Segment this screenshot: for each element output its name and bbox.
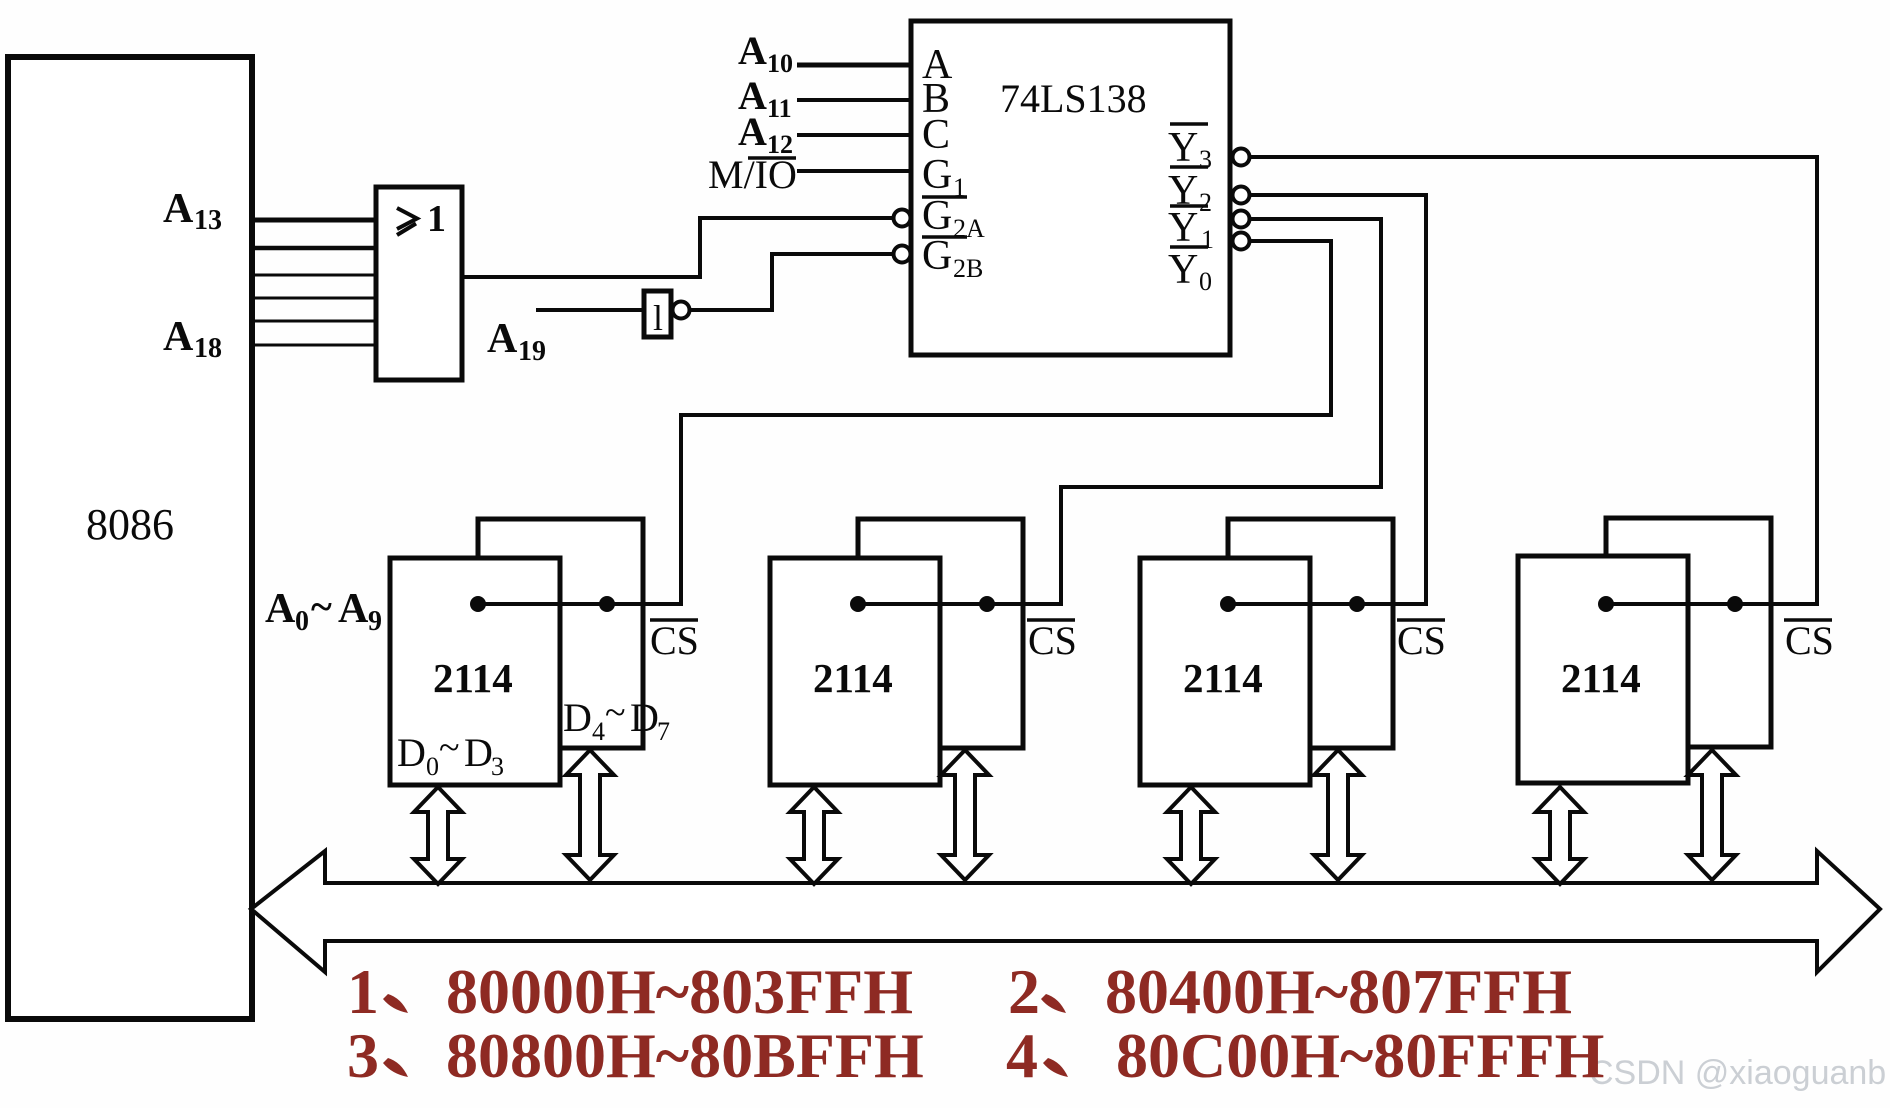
- svg-text:8086: 8086: [86, 500, 174, 549]
- pin label Y3 with overbar: [1168, 124, 1212, 174]
- svg-text:3: 3: [347, 1020, 379, 1091]
- label CS pair 2: [1027, 618, 1075, 622]
- wire M/IO to pin G1: [797, 169, 911, 173]
- svg-text:D: D: [397, 730, 426, 775]
- wire A10 to pin A: [797, 63, 911, 68]
- input bubble G2A: [894, 210, 911, 227]
- CPU 8086 box: [8, 57, 252, 1019]
- svg-text:80C00H~80FFFH: 80C00H~80FFFH: [1116, 1020, 1604, 1091]
- svg-text:1: 1: [1201, 225, 1214, 254]
- input bubble G2B: [894, 246, 911, 263]
- svg-text:9: 9: [368, 606, 382, 637]
- svg-text:2: 2: [1008, 956, 1040, 1027]
- wire Y2 to CS of pair 3: [1250, 195, 1426, 606]
- label A18: [163, 314, 222, 364]
- junction dots pair 2: [850, 596, 866, 612]
- svg-text:Y: Y: [1168, 205, 1198, 251]
- small data arrows (double headed vertical): [414, 750, 1736, 884]
- pin label Y2 with overbar: [1168, 167, 1212, 217]
- junction dots pair 3: [1220, 596, 1236, 612]
- svg-text:CSDN @xiaoguanb: CSDN @xiaoguanb: [1589, 1054, 1886, 1092]
- label CS pair 3: [1397, 618, 1445, 622]
- memory pair 2: 2114 back chip: [770, 519, 1077, 785]
- svg-text:~: ~: [605, 692, 626, 734]
- wire CS net pair 4: [1606, 602, 1819, 606]
- svg-text:A: A: [738, 109, 767, 154]
- pin label Y1 with overbar: [1168, 205, 1214, 254]
- junction dots pair 4: [1598, 596, 1614, 612]
- svg-text:D: D: [464, 730, 493, 775]
- wire A12 to pin C: [797, 133, 911, 137]
- data arrow chip4 back: [1688, 750, 1736, 880]
- svg-text:3: 3: [1199, 145, 1212, 174]
- svg-text:7: 7: [657, 717, 670, 746]
- svg-text:80800H~80BFFH: 80800H~80BFFH: [446, 1020, 924, 1091]
- svg-text:11: 11: [767, 94, 792, 123]
- pin label G2B with overbar: [922, 233, 983, 283]
- svg-text:A: A: [338, 586, 369, 632]
- wire Y3 to CS of pair 4: [1250, 157, 1817, 606]
- wire CS net pair 2: [858, 602, 1063, 606]
- inverter U3: [644, 291, 690, 338]
- red address range annotations: [347, 956, 1604, 1091]
- svg-text:1: 1: [347, 956, 379, 1027]
- svg-text:2114: 2114: [1183, 655, 1263, 701]
- memory pair 1: 2114 back chip: [390, 519, 699, 785]
- svg-text:CS: CS: [650, 618, 699, 663]
- memory pair 3: 2114 back chip: [1140, 519, 1446, 785]
- wire CS net pair 3: [1228, 602, 1428, 606]
- pin label G1: [922, 152, 966, 202]
- svg-text:2: 2: [1199, 188, 1212, 217]
- label A11: [738, 73, 792, 123]
- decoder 74LS138 U1: [911, 21, 1230, 355]
- wire Y1 to CS of pair 2: [1061, 219, 1381, 606]
- label A0~A9: [265, 584, 382, 637]
- svg-text:Y: Y: [1168, 125, 1198, 171]
- svg-text:0: 0: [1199, 267, 1212, 296]
- memory pair 4: 2114 back chip: [1518, 518, 1834, 783]
- label CS pair 1: [650, 618, 698, 622]
- memory pair 2: 2114 front chip: [770, 558, 940, 785]
- svg-text:G: G: [922, 233, 952, 279]
- label M/IO with overbar: [708, 152, 797, 197]
- svg-text:A: A: [265, 586, 296, 632]
- output bubble Y3: [1233, 149, 1250, 166]
- output bubble Y0: [1233, 233, 1250, 250]
- output bubble Y2: [1233, 187, 1250, 204]
- svg-text:10: 10: [767, 49, 793, 78]
- svg-text:l: l: [653, 298, 663, 338]
- svg-text:19: 19: [518, 336, 546, 367]
- svg-text:A: A: [163, 186, 194, 232]
- svg-text:80400H~807FFH: 80400H~807FFH: [1105, 956, 1572, 1027]
- output bubble Y1: [1233, 211, 1250, 228]
- wire OR output to G2A: [462, 218, 893, 277]
- svg-text:D: D: [563, 695, 592, 740]
- svg-text:2114: 2114: [1561, 655, 1641, 701]
- memory pair 4: 2114 front chip: [1518, 556, 1688, 783]
- svg-text:2114: 2114: [813, 655, 893, 701]
- label D4~D7: [563, 692, 670, 746]
- svg-text:CS: CS: [1397, 618, 1446, 663]
- wire Y0 to CS of pair 1: [681, 241, 1331, 606]
- data arrow chip2 back: [941, 750, 989, 880]
- label A19: [487, 316, 546, 367]
- svg-text:80000H~803FFH: 80000H~803FFH: [446, 956, 913, 1027]
- memory pair 3: 2114 front chip: [1140, 558, 1310, 785]
- label CS pair 4: [1784, 618, 1832, 622]
- svg-text:4: 4: [1006, 1020, 1038, 1091]
- wire A19 input: [536, 308, 644, 312]
- data arrow chip2 front: [790, 787, 838, 884]
- label A10: [738, 28, 793, 78]
- svg-text:1: 1: [427, 198, 446, 240]
- wire bus A13..A18 from 8086 to OR gate: [252, 220, 378, 345]
- svg-text:~: ~: [439, 727, 460, 769]
- svg-text:~: ~: [311, 584, 332, 629]
- or-gate U2 (>=1): [376, 187, 462, 380]
- svg-text:2B: 2B: [953, 254, 983, 283]
- data arrow chip1 front: [414, 787, 462, 884]
- svg-text:0: 0: [295, 606, 309, 637]
- svg-text:CS: CS: [1028, 618, 1077, 663]
- junction dots pair 1: [470, 596, 486, 612]
- data arrow chip3 front: [1167, 787, 1215, 884]
- svg-text:A: A: [163, 314, 194, 360]
- svg-text:Y: Y: [1168, 247, 1198, 293]
- svg-text:A: A: [738, 28, 767, 73]
- label D0~D3: [397, 727, 504, 781]
- data arrow chip1 back: [566, 750, 614, 880]
- svg-text:D: D: [630, 695, 659, 740]
- label A13: [163, 186, 222, 236]
- svg-text:A: A: [487, 316, 518, 362]
- svg-text:CS: CS: [1785, 618, 1834, 663]
- svg-text:3: 3: [491, 752, 504, 781]
- svg-text:4: 4: [592, 717, 605, 746]
- memory pair 1: 2114 front chip: [390, 558, 560, 785]
- label A12: [738, 109, 793, 159]
- svg-text:0: 0: [426, 752, 439, 781]
- wire inverter output to G2B: [690, 254, 893, 310]
- data arrow chip3 back: [1314, 750, 1362, 880]
- data bus (big horizontal double arrow): [251, 851, 1880, 972]
- data arrow chip4 front: [1536, 787, 1584, 884]
- svg-text:13: 13: [194, 205, 222, 236]
- svg-text:74LS138: 74LS138: [1000, 76, 1147, 121]
- svg-text:G: G: [922, 152, 952, 198]
- wire A11 to pin B: [797, 98, 911, 102]
- pin label Y0 with overbar: [1168, 247, 1212, 296]
- svg-text:2114: 2114: [433, 655, 513, 701]
- pin label G2A with overbar: [922, 193, 985, 243]
- svg-text:18: 18: [194, 333, 222, 364]
- wire CS net pair 1: [478, 602, 683, 606]
